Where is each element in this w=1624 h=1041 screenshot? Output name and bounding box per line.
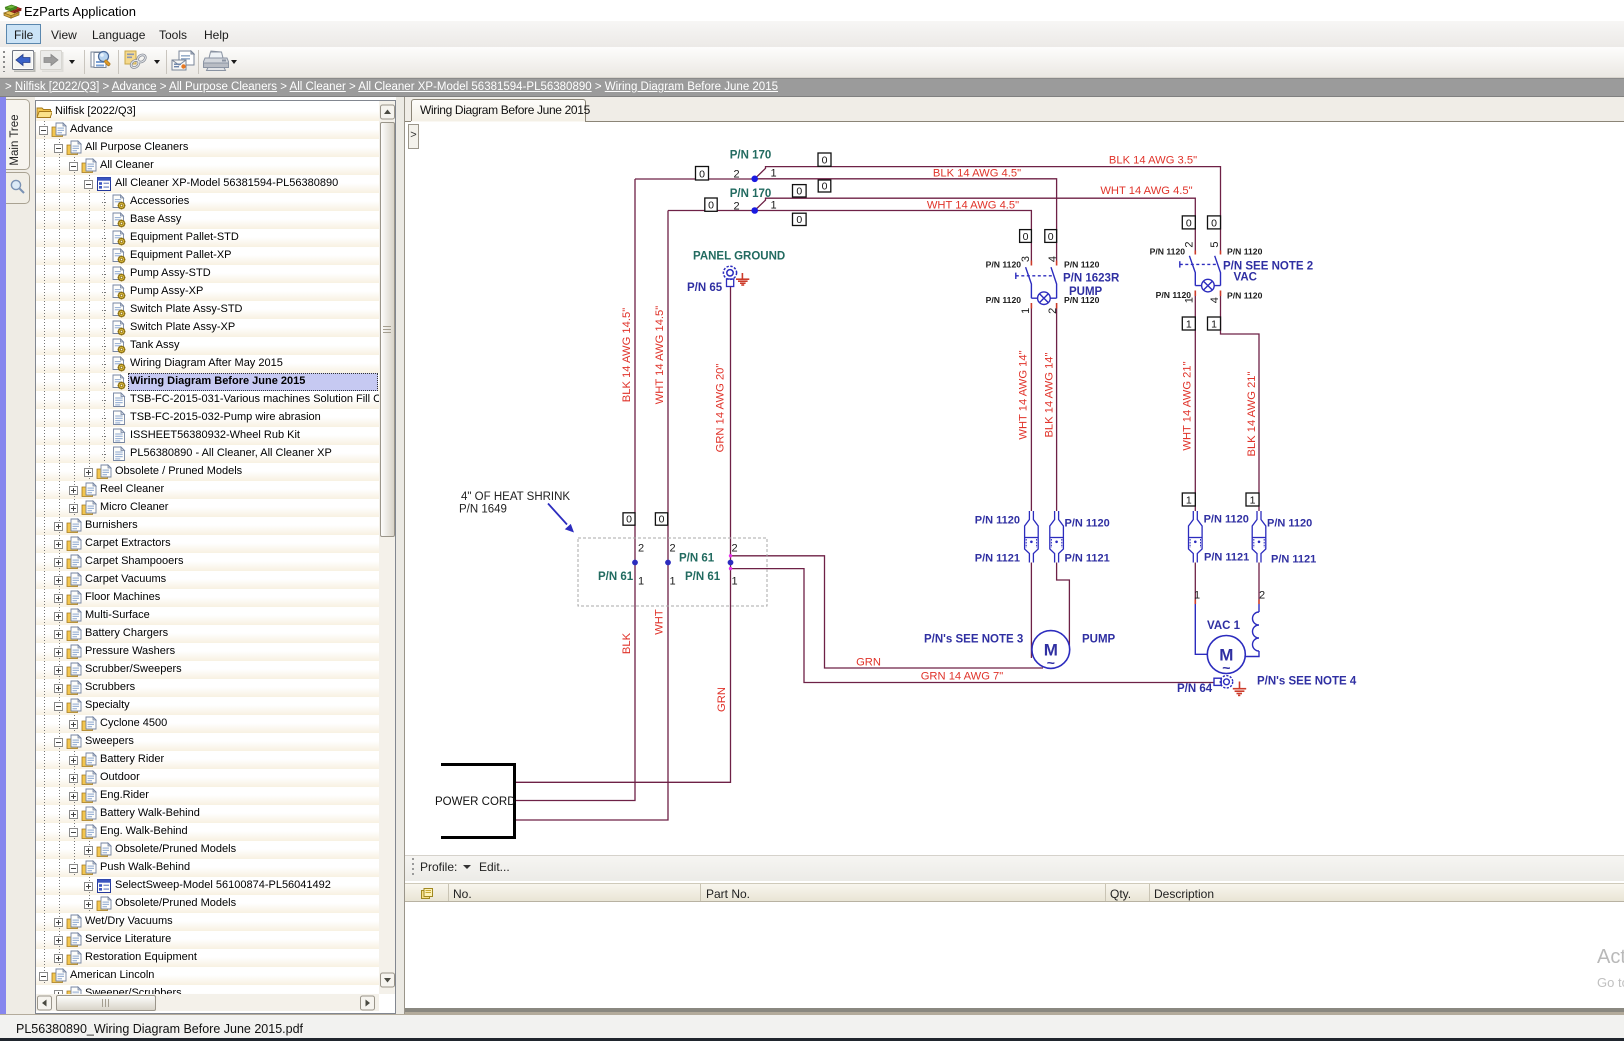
splice junction dot P/N 61 BLK — [632, 560, 638, 566]
svg-text:P/N 1120: P/N 1120 — [1064, 260, 1100, 270]
splice junction dot P/N 61 WHT — [665, 560, 671, 566]
wire VAC left lead — [1194, 296, 1196, 511]
svg-text:PUMP: PUMP — [1082, 634, 1116, 646]
terminal tick VAC pin 2 — [1194, 251, 1196, 255]
terminal tick VAC pin 4 — [1220, 291, 1222, 297]
svg-text:2: 2 — [1184, 242, 1196, 248]
svg-text:1: 1 — [1186, 318, 1192, 330]
svg-text:VAC 1: VAC 1 — [1207, 620, 1241, 632]
svg-text:2: 2 — [638, 542, 644, 554]
svg-text:P/N 1120: P/N 1120 — [1156, 290, 1192, 300]
wire WHT 14 AWG 4.5 left (to PUMP pin3) — [755, 211, 1032, 261]
svg-text:0: 0 — [1211, 217, 1217, 229]
svg-text:0: 0 — [626, 514, 632, 526]
breadcrumb bar — [0, 78, 1624, 97]
svg-text:P/N 61: P/N 61 — [685, 571, 721, 583]
wire state marker box 1 #11 — [1182, 317, 1195, 330]
svg-text:4" OF HEAT SHRINK: 4" OF HEAT SHRINK — [461, 491, 570, 503]
table body — [405, 902, 1624, 1008]
svg-text:1: 1 — [1186, 494, 1192, 506]
wire state marker box 0 #4 — [705, 198, 717, 211]
svg-text:P/N 1121: P/N 1121 — [1204, 552, 1249, 564]
svg-text:P/N 1120: P/N 1120 — [1065, 518, 1110, 530]
svg-text:P/N's SEE NOTE 4: P/N's SEE NOTE 4 — [1257, 676, 1357, 688]
svg-text:2: 2 — [669, 542, 675, 554]
svg-text:2: 2 — [731, 542, 737, 554]
svg-text:POWER CORD: POWER CORD — [435, 796, 516, 808]
svg-text:GRN: GRN — [716, 687, 728, 712]
wire GRN to PUMP motor — [731, 556, 1044, 668]
svg-text:1: 1 — [770, 168, 776, 180]
svg-text:0: 0 — [1023, 231, 1029, 243]
svg-text:2: 2 — [1047, 308, 1059, 314]
switch PUMP P/N 1623R — [1016, 267, 1057, 304]
wire state marker box 1 #13 — [1182, 493, 1195, 506]
panel ground earth symbol — [736, 273, 749, 285]
splice junction dot P/N 61 GRN — [728, 560, 734, 566]
svg-text:0: 0 — [796, 214, 802, 226]
VAC ground earth symbol — [1233, 682, 1246, 696]
svg-text:P/N 1623R: P/N 1623R — [1063, 273, 1120, 285]
toolbar — [0, 47, 1624, 78]
svg-text:P/N 1121: P/N 1121 — [1271, 554, 1316, 566]
bullet connector J4 P/N 1120 / P/N 1121 — [1252, 511, 1266, 563]
svg-text:GRN 14 AWG 20": GRN 14 AWG 20" — [714, 364, 726, 453]
terminal tick PUMP pin 1 — [1030, 303, 1032, 309]
svg-text:2: 2 — [733, 169, 739, 181]
svg-text:~: ~ — [1222, 660, 1230, 676]
svg-text:WHT 14 AWG 4.5": WHT 14 AWG 4.5" — [1100, 185, 1192, 197]
Main Tree vertical tab — [6, 99, 30, 170]
svg-text:5: 5 — [1209, 242, 1221, 248]
svg-text:1: 1 — [1194, 590, 1200, 602]
svg-text:P/N 1120: P/N 1120 — [975, 515, 1020, 527]
wire state marker box 0 #3 — [818, 180, 831, 192]
POWER CORD box — [441, 765, 515, 838]
svg-text:WHT 14 AWG 14.5": WHT 14 AWG 14.5" — [654, 306, 666, 405]
wire PUMP right lead — [1056, 309, 1058, 512]
connector junction dot P/N 170 BLK — [751, 176, 758, 183]
wire state marker box 0 #9 — [1182, 216, 1195, 229]
wire BLK 14 AWG 14.5 vertical to POWER CORD — [516, 179, 635, 801]
svg-text:P/N 170: P/N 170 — [730, 188, 772, 200]
svg-text:WHT 14 AWG 14": WHT 14 AWG 14" — [1018, 350, 1030, 439]
title bar — [0, 0, 1624, 21]
right panel background — [396, 97, 405, 1014]
splice tap node GRN upper — [729, 554, 732, 557]
svg-text:1: 1 — [770, 199, 776, 211]
svg-text:1: 1 — [669, 576, 675, 588]
terminal tick VAC motor lead 1 — [1194, 600, 1196, 605]
wire VAC right lead — [1221, 296, 1260, 511]
terminal tick VAC pin 5 — [1220, 251, 1222, 255]
svg-text:2: 2 — [1259, 590, 1265, 602]
wire WHT 14 AWG 4.5 right (to VAC pin2) — [755, 198, 1196, 250]
svg-text:3: 3 — [1020, 256, 1032, 262]
profile toolbar — [405, 855, 1624, 881]
wire state marker box 0 #6 — [793, 213, 807, 225]
svg-text:P/N 1121: P/N 1121 — [1065, 553, 1110, 565]
svg-text:P/N 61: P/N 61 — [598, 571, 634, 583]
wire state marker box 0 #5 — [793, 185, 807, 197]
svg-text:P/N 1649: P/N 1649 — [459, 504, 507, 516]
terminal tick PUMP pin 2 — [1056, 303, 1058, 309]
wire GRN 14 AWG 7 to VAC ground — [731, 569, 1215, 683]
wire state marker box 0 #15 — [623, 513, 635, 525]
svg-text:0: 0 — [708, 200, 714, 212]
svg-text:0: 0 — [1186, 217, 1192, 229]
terminal tick VAC pin 1 — [1194, 291, 1196, 297]
tree panel — [35, 100, 396, 1014]
switch VAC — [1180, 256, 1221, 292]
svg-text:0: 0 — [796, 185, 802, 197]
wire state marker box 1 #14 — [1246, 493, 1259, 506]
wire state marker box 1 #12 — [1208, 317, 1221, 330]
svg-text:WHT 14 AWG 4.5": WHT 14 AWG 4.5" — [927, 200, 1019, 212]
svg-text:P/N 1120: P/N 1120 — [1267, 518, 1312, 530]
svg-text:P/N 170: P/N 170 — [730, 149, 772, 161]
svg-text:WHT: WHT — [654, 609, 666, 635]
svg-text:0: 0 — [1048, 231, 1054, 243]
svg-text:0: 0 — [659, 514, 665, 526]
motor PUMP — [1032, 631, 1070, 669]
wire PUMP left lead — [1030, 309, 1032, 512]
svg-text:PUMP: PUMP — [1069, 286, 1103, 298]
svg-text:P/N 1120: P/N 1120 — [986, 295, 1022, 305]
svg-text:BLK: BLK — [621, 632, 633, 654]
wire state marker box 0 #2 — [818, 153, 831, 166]
VAC ground ring terminal P/N 64 — [1214, 676, 1233, 688]
wire state marker box 0 #7 — [1020, 230, 1032, 243]
svg-text:P/N 1120: P/N 1120 — [1204, 514, 1249, 526]
terminal tick PUMP pin 3 — [1030, 261, 1032, 266]
wire BLK 14 AWG 4.5 (to PUMP pin4) — [755, 179, 1057, 261]
document tab — [411, 99, 586, 122]
motor VAC 1 — [1195, 604, 1259, 674]
bullet connector J2 P/N 1120 / P/N 1121 — [1050, 511, 1064, 563]
svg-text:WHT 14 AWG 21": WHT 14 AWG 21" — [1182, 361, 1194, 450]
svg-text:2: 2 — [733, 200, 739, 212]
wire GRN 14 AWG 20 vertical to POWER CORD — [516, 287, 731, 783]
heat shrink dashed box — [578, 538, 767, 606]
svg-text:0: 0 — [699, 168, 705, 180]
svg-text:P/N 65: P/N 65 — [687, 282, 723, 294]
wire state marker box 0 #8 — [1045, 230, 1057, 243]
svg-text:P/N 1120: P/N 1120 — [1227, 290, 1263, 300]
svg-text:BLK 14 AWG 14.5": BLK 14 AWG 14.5" — [621, 308, 633, 402]
svg-text:PANEL GROUND: PANEL GROUND — [693, 251, 785, 263]
svg-text:P/N 61: P/N 61 — [679, 553, 715, 565]
splice tap node GRN lower — [729, 567, 732, 570]
svg-text:4: 4 — [1047, 256, 1059, 262]
bullet connector J1 P/N 1120 / P/N 1121 — [1025, 511, 1039, 563]
wire WHT 14 AWG 14.5 vertical to POWER CORD — [516, 211, 668, 821]
svg-text:P/N's SEE NOTE 3: P/N's SEE NOTE 3 — [924, 634, 1023, 646]
svg-text:BLK 14 AWG 4.5": BLK 14 AWG 4.5" — [933, 168, 1021, 180]
wire BLK pin2 from vertical to connector P/N 170 — [635, 178, 755, 180]
terminal tick VAC motor lead 2 — [1258, 600, 1260, 605]
svg-text:0: 0 — [822, 155, 828, 167]
svg-text:1: 1 — [1250, 494, 1256, 506]
svg-text:P/N 1121: P/N 1121 — [975, 553, 1020, 565]
svg-text:P/N 64: P/N 64 — [1177, 683, 1213, 695]
svg-text:1: 1 — [1020, 308, 1032, 314]
left dock strip — [0, 97, 6, 1014]
svg-text:BLK 14 AWG 3.5": BLK 14 AWG 3.5" — [1109, 155, 1197, 167]
activation watermark — [1597, 946, 1624, 969]
svg-text:0: 0 — [822, 180, 828, 192]
svg-text:GRN: GRN — [856, 657, 881, 669]
wire WHT pin2 from vertical to connector P/N 170 — [668, 210, 755, 212]
search vertical tab — [6, 172, 30, 204]
parts table header — [405, 883, 1624, 902]
bullet connector J3 P/N 1120 / P/N 1121 — [1189, 511, 1203, 563]
connector junction dot P/N 170 WHT — [751, 207, 758, 214]
svg-text:P/N 1120: P/N 1120 — [1227, 246, 1263, 256]
svg-text:4: 4 — [1209, 297, 1221, 303]
svg-text:BLK 14 AWG 21": BLK 14 AWG 21" — [1246, 371, 1258, 456]
status bar — [0, 1008, 1624, 1012]
svg-text:BLK 14 AWG 14": BLK 14 AWG 14" — [1043, 352, 1055, 437]
svg-text:1: 1 — [731, 576, 737, 588]
tree vertical scrollbar — [379, 101, 395, 994]
wire state marker box 0 #10 — [1208, 216, 1221, 229]
svg-text:P/N 1120: P/N 1120 — [986, 260, 1022, 270]
wire state marker box 0 #1 — [696, 167, 709, 181]
svg-text:GRN 14 AWG 7": GRN 14 AWG 7" — [921, 671, 1004, 683]
svg-text:P/N 1120: P/N 1120 — [1150, 246, 1186, 256]
svg-text:1: 1 — [638, 576, 644, 588]
collapse button — [408, 124, 419, 149]
svg-text:VAC: VAC — [1234, 272, 1257, 284]
tree horizontal scrollbar — [36, 994, 379, 1011]
terminal tick PUMP pin 4 — [1056, 261, 1058, 266]
diagram content area — [405, 122, 1624, 855]
wire state marker box 0 #16 — [655, 513, 667, 525]
svg-text:1: 1 — [1211, 318, 1217, 330]
wire BLK 14 AWG 3.5 (pin1 to VAC pin5) — [755, 167, 1221, 251]
svg-text:~: ~ — [1047, 655, 1055, 671]
panel ground ring terminal P/N 65 — [723, 266, 736, 286]
heat shrink pointer arrow — [548, 504, 567, 525]
menu bar — [0, 21, 1624, 47]
